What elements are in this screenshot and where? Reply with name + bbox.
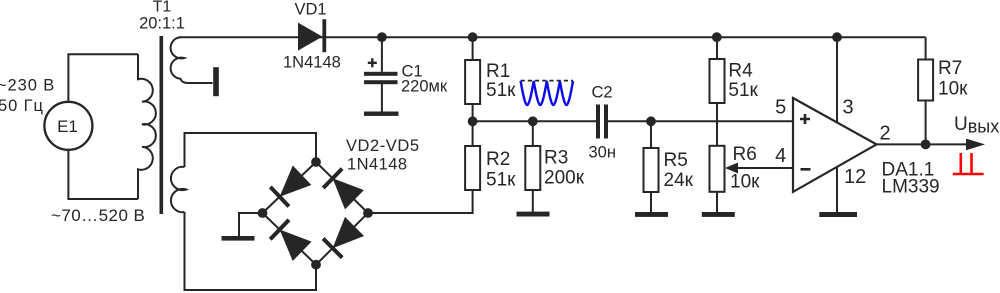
resistor R3 xyxy=(525,121,584,212)
resistor R1 xyxy=(465,37,516,121)
ground of R3 xyxy=(517,212,550,217)
source E1 circle xyxy=(44,102,92,150)
svg-text:3: 3 xyxy=(843,97,854,119)
diode VD2 (NW) xyxy=(270,166,311,207)
svg-text:R6: R6 xyxy=(733,144,757,165)
svg-text:220мк: 220мк xyxy=(401,77,448,95)
node mid R1R2 xyxy=(468,116,478,126)
svg-text:~70…520 В: ~70…520 В xyxy=(51,206,145,225)
node pin3 xyxy=(832,32,842,42)
node bridge north xyxy=(311,157,321,167)
node R3 top xyxy=(528,116,538,126)
svg-text:50 Гц: 50 Гц xyxy=(0,97,44,115)
blue waveform xyxy=(521,81,573,105)
svg-text:2: 2 xyxy=(880,123,891,145)
svg-text:1N4148: 1N4148 xyxy=(283,54,341,72)
svg-text:51к: 51к xyxy=(486,170,516,191)
wire bridge west to ground xyxy=(239,213,263,236)
op-amp comparator DA1.1 xyxy=(775,97,940,198)
node R5 top xyxy=(646,116,656,126)
svg-text:R3: R3 xyxy=(544,147,568,168)
label VD2-VD5 1N4148 xyxy=(346,137,420,174)
wire middle rail xyxy=(473,120,793,122)
capacitor C1 xyxy=(364,37,448,111)
diode VD1 xyxy=(283,1,341,72)
wire pin12 to ground xyxy=(836,167,838,213)
svg-text:1N4148: 1N4148 xyxy=(347,156,408,174)
svg-text:Т1: Т1 xyxy=(153,0,172,16)
node C1 tap xyxy=(377,32,387,42)
wire E1 loop xyxy=(68,54,138,199)
wire pin3 power xyxy=(836,37,838,123)
resistor R2 xyxy=(465,121,516,191)
svg-text:VD2-VD5: VD2-VD5 xyxy=(346,137,420,155)
node R1 top xyxy=(468,32,478,42)
svg-text:10к: 10к xyxy=(730,172,760,193)
svg-text:200к: 200к xyxy=(544,167,585,188)
node R4 top xyxy=(712,32,722,42)
ground of pin12 xyxy=(819,212,857,217)
resistor R7 xyxy=(918,37,968,144)
wire secondary bottom loop xyxy=(185,133,317,290)
svg-text:30н: 30н xyxy=(589,143,616,161)
wire bridge east to R2 xyxy=(368,191,473,213)
dashed peak line xyxy=(521,80,573,82)
resistor R6 (pot) xyxy=(710,144,761,212)
svg-text:12: 12 xyxy=(844,166,866,188)
svg-text:4: 4 xyxy=(775,145,786,167)
svg-text:10к: 10к xyxy=(938,79,968,100)
wire top rail xyxy=(179,36,926,38)
node bridge east xyxy=(363,208,373,218)
svg-text:VD1: VD1 xyxy=(295,1,327,19)
label T1 20:1:1 xyxy=(139,0,185,33)
svg-text:51к: 51к xyxy=(728,80,758,101)
svg-text:~230 В: ~230 В xyxy=(0,77,55,95)
svg-text:51к: 51к xyxy=(486,80,516,101)
node output xyxy=(921,140,931,150)
bridge rectifier wires xyxy=(263,162,369,265)
svg-text:Е1: Е1 xyxy=(57,117,78,136)
ground of bridge xyxy=(222,236,255,241)
transformer T1 secondary winding top xyxy=(171,37,213,83)
transformer T1 primary winding xyxy=(138,54,156,199)
red pulse symbol xyxy=(953,153,984,174)
node bridge west xyxy=(258,208,268,218)
svg-text:5: 5 xyxy=(775,97,786,119)
ground of R5 xyxy=(635,212,668,217)
resistor R4 xyxy=(710,37,759,146)
svg-text:24к: 24к xyxy=(664,170,694,191)
svg-text:Uвых: Uвых xyxy=(954,114,999,137)
svg-text:R5: R5 xyxy=(664,150,688,171)
svg-text:C2: C2 xyxy=(592,83,613,101)
diode VD3 (NE) xyxy=(323,169,364,210)
label U out xyxy=(954,114,999,137)
wire output xyxy=(876,139,985,151)
ground of C1 xyxy=(364,112,399,116)
transformer T1 core xyxy=(160,36,164,214)
ground bar of top secondary xyxy=(213,67,219,96)
diode VD5 (SE) xyxy=(323,217,364,258)
transformer T1 secondary winding bottom xyxy=(171,167,186,212)
node bridge south xyxy=(311,260,321,270)
diode VD4 (SW) xyxy=(270,220,311,261)
label ~230 В 50 Гц xyxy=(0,77,55,115)
capacitor C2 xyxy=(589,83,616,161)
wire R6 wiper to inverting input xyxy=(725,163,793,174)
resistor R5 xyxy=(644,121,694,213)
svg-text:R4: R4 xyxy=(728,61,753,82)
ground of R6 xyxy=(702,212,735,217)
svg-text:LM339: LM339 xyxy=(882,177,940,198)
svg-text:R7: R7 xyxy=(938,58,962,79)
svg-text:R2: R2 xyxy=(486,149,510,170)
svg-text:20:1:1: 20:1:1 xyxy=(139,15,185,33)
label ~70…520 В xyxy=(51,206,145,225)
